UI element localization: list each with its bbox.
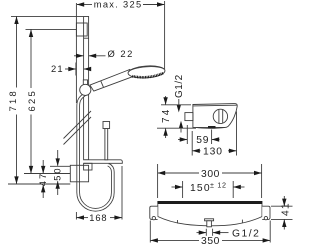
bottom ticks (177, 220, 179, 223)
svg-text:G1/2: G1/2 (232, 228, 260, 239)
svg-text:21: 21 (51, 63, 64, 74)
dimension 168 (76, 166, 122, 223)
right end cap (262, 206, 270, 220)
dimension 150 ± 12 (172, 181, 245, 198)
lower wall bracket box (70, 165, 88, 182)
G1/2 label (side view) (174, 74, 185, 132)
knob (side view) (213, 109, 227, 123)
outlet stub (205, 219, 214, 227)
thermostat body side view (193, 104, 237, 129)
svg-text:168: 168 (89, 213, 107, 223)
extension line top (bar top) (11, 15, 83, 17)
dimension 350 (150, 221, 270, 248)
svg-text:± 12: ± 12 (210, 181, 227, 190)
dimension 130 (192, 112, 236, 158)
svg-text:625: 625 (26, 89, 37, 112)
left long extension line (75, 3, 77, 103)
wall stub (side view) (185, 113, 193, 121)
svg-text:130: 130 (203, 146, 223, 157)
shower holder slider (80, 80, 91, 96)
hand shower handle (90, 70, 133, 92)
outlet pipe above shelf (103, 122, 110, 160)
svg-text:Ø 22: Ø 22 (108, 48, 134, 59)
svg-text:47: 47 (38, 172, 48, 186)
bar break marks (64, 111, 92, 139)
extension lines lower-left (50, 165, 70, 167)
tablet body (158, 204, 262, 226)
svg-text:G1/2: G1/2 (174, 74, 185, 98)
wall bracket top (76, 23, 87, 36)
extension line 625 top (bracket) (26, 28, 77, 30)
dimension Ø22 (74, 48, 134, 59)
dimension 21 (51, 63, 91, 76)
svg-text:718: 718 (7, 89, 18, 112)
svg-text:50: 50 (52, 166, 62, 180)
svg-text:150: 150 (190, 183, 211, 194)
outlet stub bottom (side view) (208, 126, 216, 128)
svg-text:59: 59 (196, 135, 209, 146)
dimension G1/2 (front) (197, 228, 261, 239)
svg-text:350: 350 (201, 236, 220, 247)
dimension 59 (178, 125, 220, 146)
dimension 74 (157, 96, 196, 138)
svg-text:max. 325: max. 325 (94, 0, 143, 10)
wall bar (84, 17, 89, 160)
dimension 300 (158, 164, 262, 198)
svg-text:41: 41 (281, 202, 292, 216)
shelf (84, 160, 123, 164)
dimension max. 325 (77, 0, 165, 10)
hand shower hose (78, 94, 113, 210)
dimension 47 (38, 160, 48, 198)
dimension 41 (271, 196, 293, 230)
svg-text:300: 300 (201, 169, 220, 180)
dimension 718 (7, 16, 19, 184)
svg-text:74: 74 (161, 107, 172, 123)
tablet top plate (bold) (157, 201, 262, 204)
dimension 625 (26, 29, 37, 173)
dimension 50 (52, 150, 62, 195)
small box under shelf at bar (84, 163, 92, 170)
extension line right (head tip) (164, 1, 166, 69)
hand shower head (128, 65, 166, 79)
left end cap (150, 206, 158, 220)
